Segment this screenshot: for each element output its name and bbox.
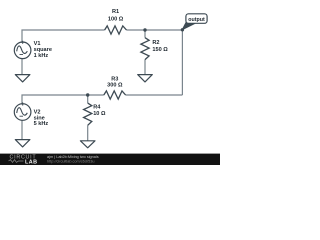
resistor R1 xyxy=(105,26,127,34)
svg-text:LAB: LAB xyxy=(25,159,38,165)
wire: R4 bottom lead to ground xyxy=(87,125,89,140)
V1 plus sign xyxy=(21,41,24,44)
label R3 300Ω xyxy=(107,76,123,88)
svg-text:10 Ω: 10 Ω xyxy=(93,111,106,117)
source V1 xyxy=(14,42,31,59)
output flag tail xyxy=(182,22,195,30)
junction dot (R1/R2 node) xyxy=(143,28,146,31)
svg-text:1 kHz: 1 kHz xyxy=(34,53,49,59)
V2 minus sign xyxy=(20,115,24,117)
svg-text:R2: R2 xyxy=(152,40,159,46)
resistor R4 xyxy=(84,103,92,125)
svg-text:150 Ω: 150 Ω xyxy=(152,47,168,53)
wire: V2 top stem and row2 rail to R3 xyxy=(22,95,104,104)
resistor R2 xyxy=(141,38,149,60)
ground (V1) xyxy=(15,75,30,82)
V1 minus sign xyxy=(20,54,24,56)
output flag box xyxy=(186,14,207,23)
junction dot (R3/R4 node) xyxy=(86,93,89,96)
label V1 square 1kHz xyxy=(34,41,52,59)
wire: R4 top lead xyxy=(87,95,89,103)
V2 plus sign xyxy=(21,102,24,105)
wire: V2 bottom lead to ground xyxy=(21,120,23,139)
label R1 100Ω xyxy=(108,9,124,22)
junction dot (output node) xyxy=(181,28,184,31)
label R4 10Ω xyxy=(93,105,106,118)
label V2 sine 5kHz xyxy=(34,109,49,127)
source V2 xyxy=(14,104,31,121)
resistor R3 xyxy=(104,91,126,99)
svg-text:http://circuitlab.com/c6dr53u: http://circuitlab.com/c6dr53u xyxy=(47,160,94,164)
wire: V1 top stem and top rail to R1 xyxy=(22,30,105,42)
wire: R2 top lead xyxy=(144,30,146,38)
ground (V2) xyxy=(15,140,30,147)
ground (R2) xyxy=(138,75,153,82)
svg-text:ajm | Lab2b:Mixing two signals: ajm | Lab2b:Mixing two signals xyxy=(47,155,99,159)
ground (R4) xyxy=(80,141,95,148)
label R2 150Ω xyxy=(152,40,168,53)
svg-text:100 Ω: 100 Ω xyxy=(108,16,124,22)
svg-text:R4: R4 xyxy=(93,105,101,111)
svg-text:R3: R3 xyxy=(111,76,118,82)
svg-text:5 kHz: 5 kHz xyxy=(34,121,49,127)
wire: right vertical from output node down to row2 xyxy=(181,30,183,95)
wire: R2 bottom lead to ground xyxy=(144,60,146,75)
wire: top rail R1 to output node xyxy=(127,29,183,31)
wire: row2 rail R3 to right vertical xyxy=(126,94,183,96)
svg-text:R1: R1 xyxy=(112,9,119,15)
svg-text:300 Ω: 300 Ω xyxy=(107,83,123,89)
svg-text:output: output xyxy=(188,17,205,23)
footer bar xyxy=(0,154,220,165)
wire: V1 bottom lead to ground xyxy=(21,58,23,74)
logo zigzag xyxy=(9,160,24,163)
